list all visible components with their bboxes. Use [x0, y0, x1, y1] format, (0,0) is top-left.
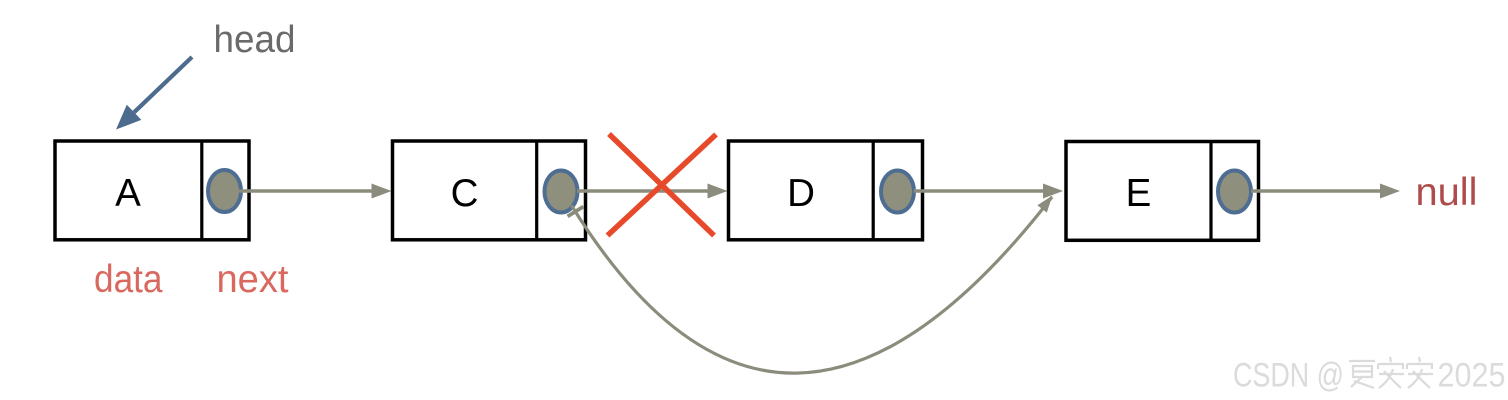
- node C next pointer circle: [545, 171, 578, 213]
- svg-text:A: A: [115, 172, 141, 215]
- wire arrow D to E: [914, 184, 1064, 199]
- label data: [94, 258, 163, 301]
- label next: [217, 258, 289, 301]
- label null: [1416, 171, 1478, 214]
- watermark glyph an1: [1378, 357, 1404, 388]
- svg-text:head: head: [214, 19, 296, 61]
- node C data label C: [451, 172, 479, 215]
- svg-text:C: C: [451, 172, 479, 215]
- node D next pointer circle: [881, 171, 914, 213]
- svg-text:data: data: [94, 258, 163, 301]
- curved wire C to E (new link): [568, 196, 1053, 374]
- watermark glyph xia: [1349, 361, 1375, 388]
- svg-text:2025: 2025: [1438, 357, 1506, 395]
- svg-text:D: D: [787, 172, 815, 215]
- wire arrow E to null: [1251, 184, 1400, 199]
- wire arrow A to C: [239, 184, 392, 199]
- svg-text:null: null: [1416, 171, 1478, 214]
- svg-text:next: next: [217, 258, 289, 301]
- svg-text:E: E: [1126, 172, 1152, 215]
- wire arrow C to D (deleted link): [577, 184, 728, 199]
- red X delete mark: [608, 134, 717, 236]
- node E box: [1066, 142, 1259, 241]
- watermark CSDN: [1233, 357, 1344, 395]
- node E next pointer circle: [1218, 171, 1251, 213]
- label head: [214, 19, 296, 61]
- node C box: [393, 141, 586, 240]
- node E data label E: [1126, 172, 1152, 215]
- watermark glyph an2: [1407, 357, 1433, 388]
- node A next pointer circle: [208, 170, 241, 212]
- watermark 2025: [1438, 357, 1506, 395]
- svg-text:CSDN @: CSDN @: [1233, 357, 1344, 395]
- node A data label A: [115, 172, 141, 215]
- node A box: [55, 141, 249, 240]
- node D data label D: [787, 172, 815, 215]
- head pointer arrow: [116, 57, 192, 130]
- node D box: [729, 141, 923, 240]
